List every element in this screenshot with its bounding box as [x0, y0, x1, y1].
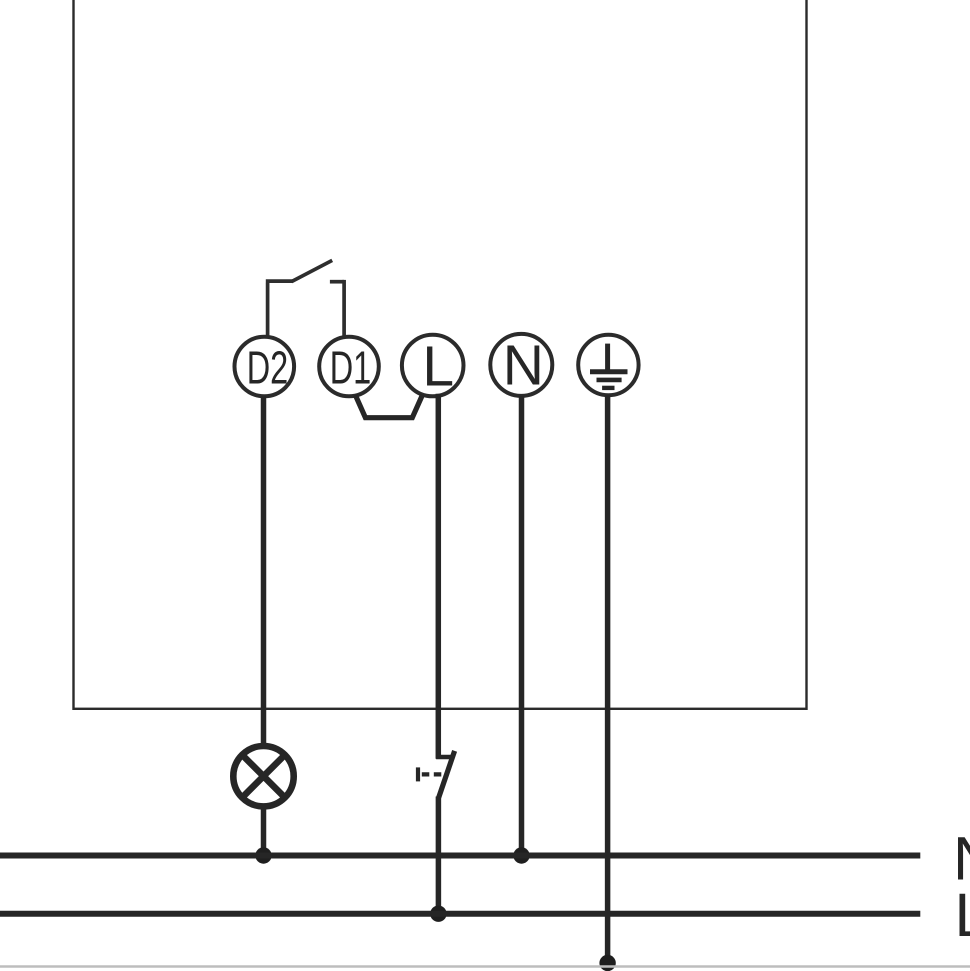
wire: N terminal down to N bus	[519, 396, 525, 856]
fixed contact stub	[436, 755, 452, 760]
junction dot: push-button to L bus	[430, 906, 446, 922]
junction dot: lamp to N bus	[255, 847, 271, 863]
terminal L	[402, 335, 464, 399]
wire: contact left horizontal	[266, 279, 293, 283]
wire: lamp down to N bus	[261, 806, 267, 856]
junction dot: PE wire to PE line	[599, 955, 615, 971]
wire: push-button down to L bus	[436, 797, 442, 914]
wire: L terminal down to push-button	[436, 394, 442, 759]
actuator tee bar	[416, 767, 420, 781]
terminal N	[490, 334, 552, 398]
wire: jumper D1 to L	[355, 395, 422, 418]
relay movable blade (open)	[292, 260, 333, 281]
wire: D1 terminal up to contact	[342, 280, 346, 337]
relay contact K1 (between D2 and D1)	[266, 260, 344, 336]
push-button S1 (normally open)	[418, 751, 455, 798]
PE line (grey)	[0, 965, 970, 967]
wire: D2 down to lamp	[261, 396, 267, 746]
wire: D2 terminal up to contact	[266, 283, 270, 337]
device enclosure rectangle	[74, 0, 807, 709]
terminal D2	[234, 337, 294, 397]
actuator dashed link	[422, 772, 446, 776]
earth symbol	[590, 344, 628, 388]
svg-text:D2: D2	[247, 342, 289, 394]
blade	[439, 751, 455, 798]
wire: contact right fixed stub	[330, 280, 344, 284]
N bus line	[0, 853, 920, 859]
wire: PE terminal down to PE line	[605, 395, 611, 963]
L bus line	[0, 911, 920, 917]
terminal PE (earth)	[578, 335, 638, 395]
svg-text:L: L	[422, 335, 454, 399]
lamp E1	[233, 746, 293, 806]
svg-text:D1: D1	[330, 342, 372, 394]
terminal D1	[319, 337, 379, 397]
junction dot: N terminal to N bus	[513, 847, 529, 863]
svg-text:L: L	[955, 881, 970, 949]
svg-text:N: N	[503, 334, 544, 398]
